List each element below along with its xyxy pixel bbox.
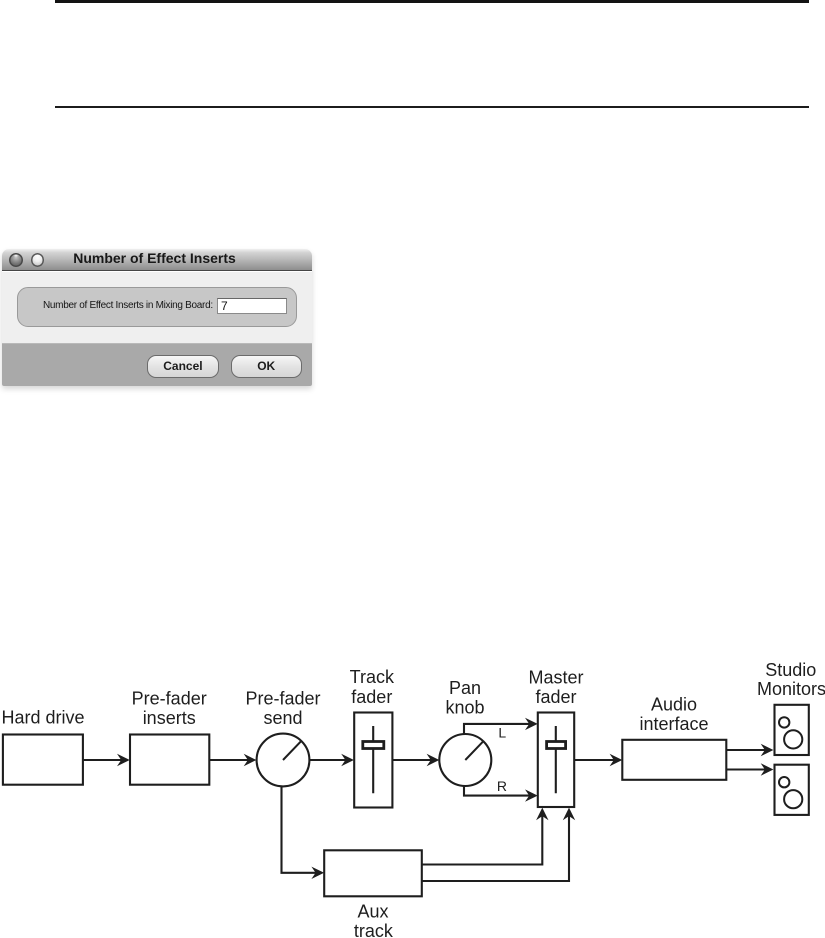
svg-text:Hard drive: Hard drive [1, 708, 84, 728]
label Aux track [354, 902, 394, 938]
label Pre-fader send [245, 689, 320, 729]
svg-text:Pre-fader: Pre-fader [132, 689, 207, 709]
header rule (thin) [55, 106, 809, 108]
svg-text:track: track [354, 921, 394, 938]
box aux track [324, 850, 422, 896]
fader master fader [538, 713, 574, 808]
label Master fader [528, 667, 583, 707]
svg-text:interface: interface [639, 714, 708, 734]
svg-text:Master: Master [528, 667, 583, 687]
box hard drive [3, 735, 83, 785]
svg-text:L: L [498, 725, 506, 741]
svg-text:fader: fader [535, 687, 576, 707]
svg-text:Aux: Aux [357, 902, 388, 922]
label Pan knob [445, 678, 484, 718]
label Track fader [350, 667, 395, 707]
wire hard drive to inserts [83, 754, 130, 766]
wire master fader to audio interface [574, 754, 622, 766]
dialog window: Number of Effect Inserts [2, 249, 313, 386]
svg-text:Monitors: Monitors [757, 679, 825, 699]
title text [2, 249, 308, 271]
wire aux track lower to master fader [422, 808, 575, 881]
label Audio interface [639, 694, 708, 734]
knob pre-fader send [257, 734, 310, 787]
OK button [231, 355, 302, 378]
wire pan R to master fader [464, 786, 538, 802]
svg-text:R: R [497, 778, 507, 794]
wire audio interface to bottom monitor [726, 763, 773, 775]
Cancel button [147, 355, 220, 378]
label Pre-fader inserts [132, 689, 207, 729]
text field [217, 298, 287, 315]
knob pan [439, 734, 491, 786]
field label [43, 300, 213, 311]
wire track fader to pan knob [392, 754, 439, 766]
close button [9, 253, 23, 267]
bottom bar [2, 343, 313, 386]
speaker bottom monitor [775, 765, 809, 815]
box audio interface [622, 740, 726, 780]
svg-text:Track: Track [350, 667, 395, 687]
svg-text:fader: fader [351, 687, 392, 707]
svg-text:send: send [263, 708, 302, 728]
dialog body [2, 272, 313, 343]
label Studio Monitors [757, 660, 825, 699]
wire inserts to pre-fader send [209, 754, 256, 766]
wire aux track upper to master fader [422, 808, 549, 865]
svg-text:Studio: Studio [765, 660, 816, 680]
wire pre-fader send down to aux track [282, 786, 325, 879]
svg-text:knob: knob [445, 698, 484, 718]
speaker top monitor [775, 705, 809, 755]
wire pre-fader send to track fader [309, 754, 354, 766]
group box [17, 287, 298, 328]
wire pan L to master fader [464, 718, 538, 735]
minimize button [31, 253, 45, 267]
svg-text:inserts: inserts [143, 708, 196, 728]
fader track fader [354, 713, 392, 808]
wire audio interface to top monitor [726, 744, 773, 756]
svg-text:Audio: Audio [651, 694, 697, 714]
svg-text:Pan: Pan [449, 678, 481, 698]
signal flow diagram [0, 640, 825, 938]
svg-text:Pre-fader: Pre-fader [245, 689, 320, 709]
title bar [2, 249, 313, 272]
top page rule (thick) [55, 0, 809, 3]
box pre-fader inserts [130, 735, 209, 785]
